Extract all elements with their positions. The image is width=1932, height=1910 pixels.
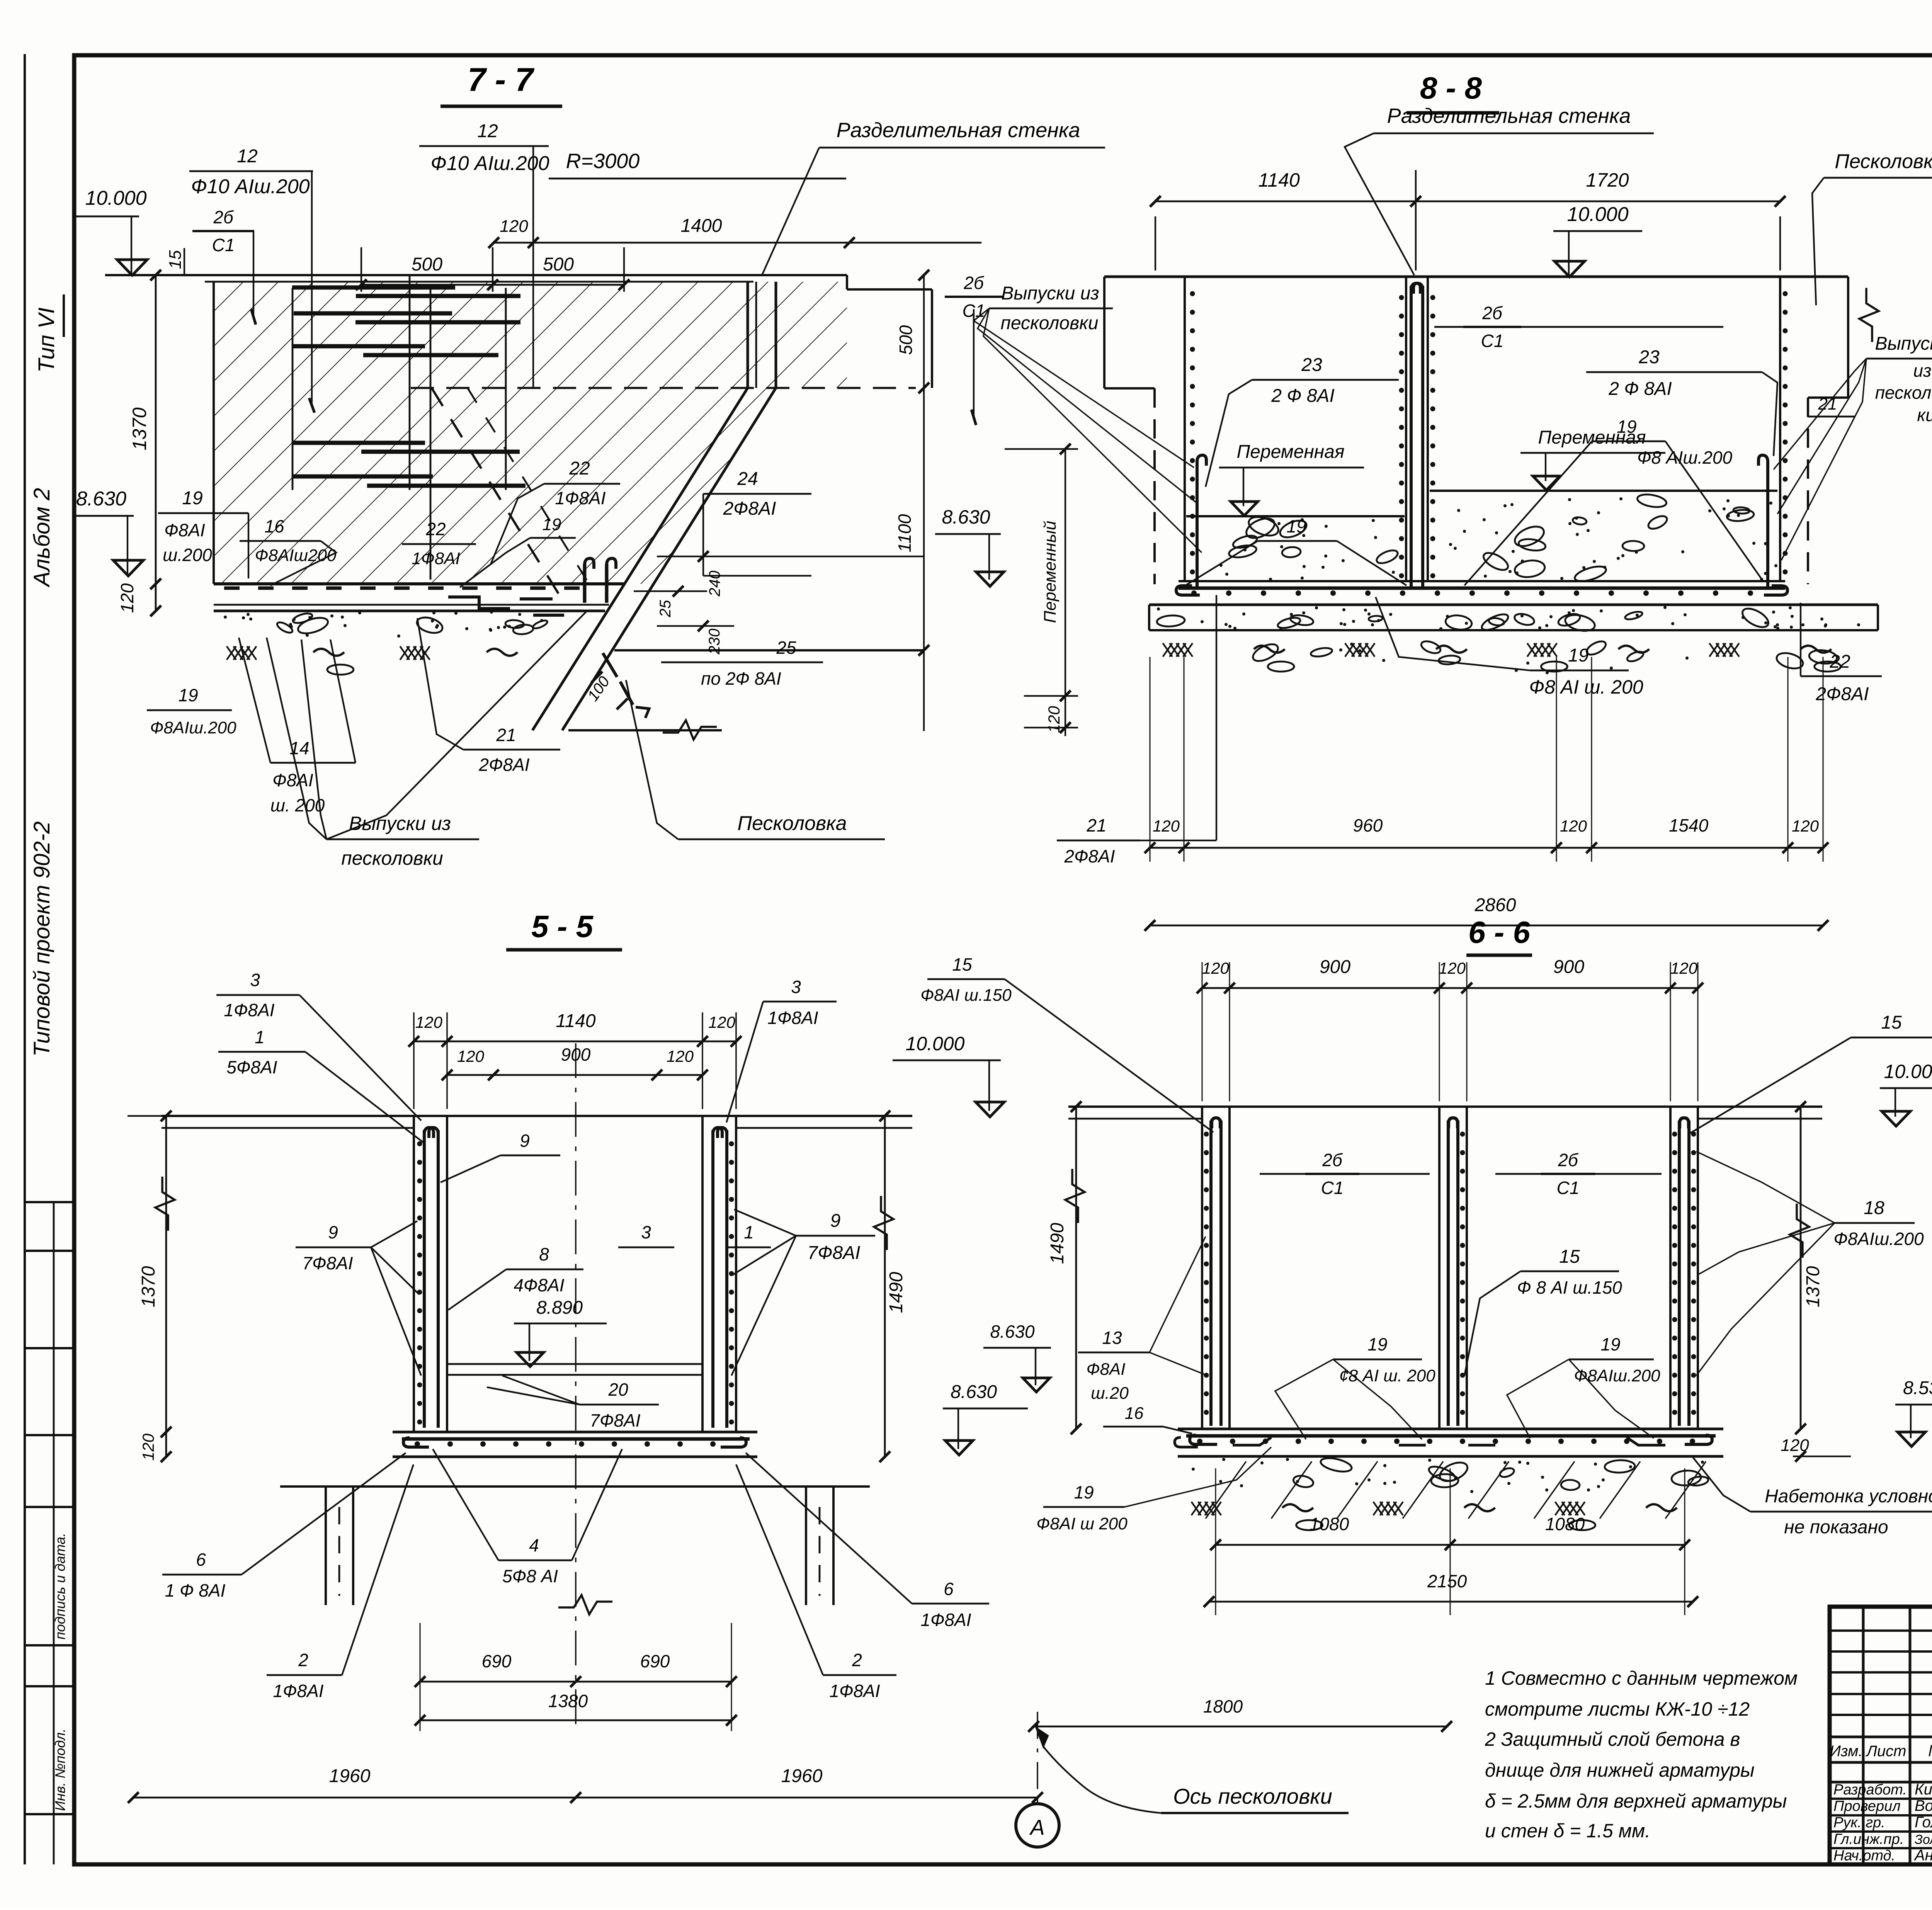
svg-text:8.630: 8.630 [76,488,126,510]
8-8 foundation pad [1148,605,1150,630]
svg-text:1720: 1720 [1586,169,1629,191]
svg-text:500: 500 [412,254,442,275]
6-6 wall rebar [1209,1121,1213,1426]
svg-text:1: 1 [255,1027,265,1047]
svg-text:Лист: Лист [1866,1743,1906,1760]
svg-text:20: 20 [608,1379,628,1400]
svg-text:19: 19 [182,488,202,509]
svg-text:690: 690 [482,1651,512,1671]
svg-text:120: 120 [500,217,528,236]
svg-text:5Ф8АI: 5Ф8АI [226,1057,277,1077]
svg-text:16: 16 [1125,1404,1144,1423]
svg-text:R=3000: R=3000 [566,150,640,173]
svg-text:δ = 2.5мм для верхней арма: δ = 2.5мм для верхней арматуры [1485,1790,1787,1812]
svg-text:1Ф8АI: 1Ф8АI [224,1000,274,1020]
svg-text:Ф8АIш.200: Ф8АIш.200 [150,718,236,737]
svg-text:8: 8 [539,1244,549,1264]
svg-text:1Ф8АI: 1Ф8АI [273,1681,323,1701]
6-6 top dims [1202,987,1698,989]
svg-text:1490: 1490 [1047,1223,1068,1264]
svg-text:21: 21 [1086,815,1106,835]
svg-text:120: 120 [457,1047,485,1065]
7-7 small dims 25/240/230 [657,556,924,557]
7-7 right dims 500/1100 [923,275,925,731]
8-8 ground symbols [1163,643,1172,657]
8-8 left outer wall [1103,277,1105,388]
5-5 bottom dims [420,1681,731,1683]
svg-text:1140: 1140 [1258,169,1300,191]
svg-text:Ф8АIш.200: Ф8АIш.200 [1833,1229,1924,1249]
7-7 vypusk hooks [585,558,594,577]
svg-text:8.890: 8.890 [536,1298,583,1318]
svg-text:Разработ.: Разработ. [1833,1782,1907,1798]
6-6 floor slab [1178,1428,1723,1430]
svg-text:1Ф8АI: 1Ф8АI [767,1008,818,1028]
svg-text:Воробьева: Воробьева [1915,1798,1932,1815]
svg-text:15: 15 [1881,1012,1902,1033]
svg-text:900: 900 [1553,957,1584,977]
svg-text:19: 19 [1074,1482,1094,1502]
svg-text:2 Защитный слой бетона в: 2 Защитный слой бетона в [1485,1728,1740,1750]
svg-text:230: 230 [706,629,723,655]
svg-text:Гольдина: Гольдина [1915,1814,1932,1831]
svg-text:4: 4 [529,1535,539,1555]
svg-text:8.530: 8.530 [1903,1378,1932,1398]
svg-text:6: 6 [196,1549,206,1570]
svg-text:из: из [1913,361,1932,381]
svg-text:ки: ки [1917,405,1932,425]
svg-text:Инв. №подл.: Инв. №подл. [52,1728,68,1811]
svg-text:2 Ф 8АI: 2 Ф 8АI [1608,379,1672,399]
svg-text:2б: 2б [1482,303,1503,323]
svg-text:240: 240 [706,571,723,597]
svg-text:19: 19 [1600,1334,1620,1354]
svg-text:5 - 5: 5 - 5 [531,909,594,944]
svg-text:25: 25 [657,600,674,617]
5-5 inner channel floor [447,1363,702,1365]
svg-text:960: 960 [1353,815,1383,835]
svg-text:6 - 6: 6 - 6 [1468,915,1531,949]
svg-text:1370: 1370 [138,1266,159,1307]
svg-text:120: 120 [1792,817,1819,835]
sheet inner border (thin) [24,54,26,1864]
svg-text:2Ф8АI: 2Ф8АI [723,498,776,519]
svg-text:690: 690 [640,1651,670,1671]
svg-text:120: 120 [139,1433,157,1461]
7-7 ground symbols [227,646,236,660]
svg-text:500: 500 [896,325,916,355]
svg-text:2150: 2150 [1427,1571,1467,1591]
svg-text:900: 900 [561,1044,591,1065]
svg-text:8.630: 8.630 [951,1382,997,1402]
6-6 walls [1201,1107,1203,1429]
5-5 right dims [884,1116,886,1457]
svg-text:N докум.: N докум. [1928,1742,1932,1760]
svg-text:Песколовка: Песколовка [1835,150,1932,173]
svg-text:1400: 1400 [681,216,722,236]
svg-text:10.000: 10.000 [906,1033,965,1054]
8-8 wall rebar with dots [1196,464,1199,588]
svg-text:А: А [1029,1815,1044,1839]
title block frame [1830,1607,1932,1864]
6-6 ground symbols + diagonal lines [1191,1502,1201,1515]
svg-text:1490: 1490 [886,1272,906,1313]
svg-text:8 - 8: 8 - 8 [1420,71,1482,105]
svg-text:Нач.отд.: Нач.отд. [1833,1847,1895,1864]
svg-text:Типовой проект 902-2: Типовой проект 902-2 [29,821,54,1056]
svg-text:9: 9 [520,1131,530,1151]
svg-text:Разделительная стенка: Разделительная стенка [1387,104,1631,128]
svg-text:19: 19 [1286,516,1306,536]
svg-text:120: 120 [1202,959,1230,977]
svg-text:19: 19 [1617,417,1636,437]
7-7 wall edges [747,282,749,388]
svg-text:ш.20: ш.20 [1091,1384,1129,1403]
5-5 floor slab [393,1431,757,1434]
svg-text:8.630: 8.630 [990,1322,1035,1342]
svg-text:Ф8АIш200: Ф8АIш200 [255,546,337,565]
svg-text:120: 120 [117,583,137,613]
svg-text:16: 16 [264,516,284,536]
svg-text:1Ф8АI: 1Ф8АI [920,1610,971,1630]
svg-text:10.000: 10.000 [85,187,146,209]
svg-text:7Ф8АI: 7Ф8АI [590,1410,640,1430]
svg-text:9: 9 [328,1222,338,1242]
6-6 right dims [1800,1107,1802,1429]
svg-text:песколов-: песколов- [1875,383,1932,403]
svg-text:днище для нижней арматуры: днище для нижней арматуры [1485,1759,1755,1781]
svg-text:2: 2 [298,1650,308,1670]
7-7 top-right channel step [846,275,848,289]
svg-text:Переменный: Переменный [1041,521,1060,623]
6-6 bottom dims [1216,1544,1685,1546]
svg-text:900: 900 [1320,957,1350,977]
svg-text:7Ф8АI: 7Ф8АI [302,1253,353,1273]
axis A circle [1016,1804,1059,1847]
svg-text:1Ф8АI: 1Ф8АI [412,549,460,568]
8-8 left dim peremennyj [1065,449,1066,696]
svg-text:2860: 2860 [1475,895,1516,915]
5-5 wall rebar [423,1130,426,1428]
svg-text:1Ф8АI: 1Ф8АI [829,1681,880,1701]
8-8 top dims 1140 1720 [1155,201,1416,202]
7-7 foundation stipple [432,611,435,614]
svg-text:1 Совместно с данным черте: 1 Совместно с данным чертежом [1485,1667,1798,1689]
svg-text:120: 120 [1560,817,1587,835]
7-7 floor slab [214,582,624,585]
svg-text:120: 120 [1153,817,1180,835]
5-5 center axis [575,1043,577,1727]
svg-text:Ф10 АIш.200: Ф10 АIш.200 [191,175,310,198]
svg-text:7Ф8АI: 7Ф8АI [808,1243,861,1263]
7-7 dim 500 500 [361,284,624,286]
5-5 top dims [414,1041,736,1043]
svg-text:С1: С1 [1557,1178,1580,1198]
svg-text:1080: 1080 [1310,1514,1349,1534]
svg-text:Киселева: Киселева [1915,1781,1932,1798]
svg-text:ш.200: ш.200 [163,545,212,565]
svg-text:Ф8 АI ш. 200: Ф8 АI ш. 200 [1529,676,1643,698]
svg-text:500: 500 [543,254,574,275]
svg-text:С1: С1 [212,235,235,255]
svg-text:С1: С1 [1481,331,1504,351]
svg-text:Разделительная стенка: Разделительная стенка [837,119,1080,142]
5-5 top lines [162,1115,912,1117]
svg-text:10.000: 10.000 [1567,203,1628,226]
svg-text:по 2Ф 8АI: по 2Ф 8АI [701,668,781,689]
svg-text:2б: 2б [1322,1150,1343,1170]
svg-text:8.630: 8.630 [942,506,990,528]
8-8 ground top line [1104,276,1848,278]
svg-text:22: 22 [425,519,446,539]
svg-text:1 Ф 8АI: 1 Ф 8АI [165,1580,226,1600]
svg-text:Проверил: Проверил [1833,1798,1901,1815]
6-6 dim 1800 [1034,1726,1447,1728]
svg-text:Выпуски из: Выпуски из [1001,283,1099,304]
svg-text:Рук. гр.: Рук. гр. [1833,1815,1885,1831]
8-8 middle wall [1405,277,1407,581]
svg-text:1960: 1960 [781,1766,823,1786]
svg-text:2б: 2б [963,273,985,293]
svg-text:Гл.инж.пр.: Гл.инж.пр. [1833,1831,1904,1847]
svg-text:Ф8АI ш.150: Ф8АI ш.150 [920,986,1012,1005]
svg-text:Ф8АIш.200: Ф8АIш.200 [1574,1366,1660,1385]
svg-text:21: 21 [496,725,516,745]
svg-text:Ф10 АIш.200: Ф10 АIш.200 [430,152,549,175]
svg-text:15: 15 [166,250,185,269]
svg-text:3: 3 [641,1222,651,1242]
6-6 foundation stipple band [1526,1462,1529,1465]
svg-text:1080: 1080 [1545,1514,1585,1534]
svg-text:Ф8АI: Ф8АI [1086,1360,1125,1379]
svg-text:1960: 1960 [329,1766,371,1786]
svg-text:Андрианов: Андрианов [1914,1847,1932,1864]
svg-text:19: 19 [543,515,561,534]
svg-text:2б: 2б [1558,1150,1579,1170]
6-6 left dims [1075,1107,1077,1429]
svg-text:25: 25 [776,638,796,658]
svg-text:10.000: 10.000 [1884,1061,1932,1082]
svg-text:3: 3 [250,970,260,990]
svg-text:23: 23 [1301,355,1322,375]
svg-text:19: 19 [1568,645,1588,666]
svg-text:120: 120 [667,1047,694,1065]
svg-text:18: 18 [1864,1198,1884,1218]
svg-text:Песколовка: Песколовка [737,812,847,835]
sidebar divider lines [25,1201,74,1203]
svg-text:Ф8АI: Ф8АI [164,520,205,540]
svg-text:1Ф8АI: 1Ф8АI [555,488,605,508]
svg-text:15: 15 [952,954,972,975]
svg-text:7 - 7: 7 - 7 [468,61,535,98]
7-7 ground line [105,274,847,276]
svg-text:Набетонка условно: Набетонка условно [1765,1486,1932,1507]
svg-text:Ф8АI: Ф8АI [272,770,313,790]
svg-text:Ф 8 АI ш.150: Ф 8 АI ш.150 [1517,1277,1622,1298]
svg-text:и стен δ = 1.5 мм.: и стен δ = 1.5 мм. [1485,1820,1650,1842]
svg-text:6: 6 [944,1579,954,1599]
svg-text:3: 3 [791,977,801,997]
svg-text:Тип VI: Тип VI [34,308,59,373]
svg-text:5Ф8 АI: 5Ф8 АI [502,1566,558,1586]
svg-text:9: 9 [830,1211,841,1231]
svg-text:песколовки: песколовки [341,847,443,869]
svg-text:23: 23 [1638,347,1660,367]
svg-text:120: 120 [1670,959,1698,977]
svg-text:Ф8 АIш.200: Ф8 АIш.200 [1637,447,1733,468]
svg-text:1100: 1100 [895,514,915,552]
svg-text:13: 13 [1102,1328,1122,1348]
svg-text:1540: 1540 [1669,815,1709,835]
svg-text:Выпуски: Выпуски [1875,333,1932,354]
svg-text:19: 19 [178,685,198,705]
svg-text:120: 120 [415,1013,443,1031]
svg-text:12: 12 [477,121,498,141]
svg-text:2Ф8АI: 2Ф8АI [478,755,529,775]
svg-text:2: 2 [852,1650,862,1670]
7-7 horizontal rebar bars [292,286,455,290]
7-7 left dim 1370/120 [155,275,157,611]
svg-text:1140: 1140 [556,1011,596,1031]
svg-text:2 Ф 8АI: 2 Ф 8АI [1271,386,1335,406]
svg-text:не показано: не показано [1784,1517,1888,1538]
6-6 top lines [1068,1106,1822,1108]
svg-text:120: 120 [1439,959,1466,977]
svg-text:22: 22 [569,458,590,479]
7-7 mass outline [213,282,215,584]
svg-text:смотрите листы КЖ-10 ÷12: смотрите листы КЖ-10 ÷12 [1485,1698,1750,1720]
svg-text:15: 15 [1559,1247,1580,1267]
svg-text:19: 19 [1367,1334,1387,1354]
svg-text:1800: 1800 [1203,1696,1243,1716]
svg-text:1370: 1370 [129,407,150,450]
svg-text:Переменная: Переменная [1236,442,1344,462]
7-7 inclined wall [562,388,776,730]
5-5 left dims [165,1116,167,1457]
svg-text:1380: 1380 [548,1691,588,1711]
svg-text:песколовки: песколовки [1000,313,1098,333]
svg-text:4Ф8АI: 4Ф8АI [514,1275,564,1295]
svg-text:2б: 2б [213,207,234,227]
7-7 dashed level line [411,387,916,389]
7-7 diagonal dashed bars [432,388,564,603]
8-8 sand fill right cell [1430,490,1777,492]
svg-text:2Ф8АI: 2Ф8АI [1064,846,1115,866]
svg-text:22: 22 [1829,651,1850,672]
svg-text:1: 1 [744,1222,754,1242]
8-8 right outer wall [1847,277,1849,398]
8-8 floor slab [1179,580,1785,582]
svg-text:ш. 200: ш. 200 [270,795,325,815]
5-5 walls [413,1116,415,1432]
svg-text:1370: 1370 [1803,1266,1823,1307]
svg-text:120: 120 [708,1013,736,1031]
8-8 bottom dims [1150,847,1823,849]
svg-text:Ось песколовки: Ось песколовки [1173,1784,1332,1808]
svg-text:С1: С1 [1321,1178,1344,1198]
svg-text:Изм.: Изм. [1830,1743,1862,1760]
svg-text:120: 120 [1045,706,1063,733]
svg-text:Альбом 2: Альбом 2 [29,488,54,588]
7-7 rebar mesh box [292,288,294,490]
svg-text:24: 24 [737,469,758,489]
svg-text:12: 12 [237,146,257,167]
svg-text:Золотаревский: Золотаревский [1915,1832,1932,1847]
7-7 canal floor lines [614,649,924,651]
7-7 hatched concrete mass [214,282,847,584]
7-7 dim 120 / 1400 [494,242,533,244]
svg-text:подпись и дата.: подпись и дата. [52,1533,68,1640]
8-8 sand fill left cell [1186,515,1405,517]
svg-text:Ф8АI ш 200: Ф8АI ш 200 [1036,1514,1128,1533]
5-5 apron and legs [280,1485,870,1488]
